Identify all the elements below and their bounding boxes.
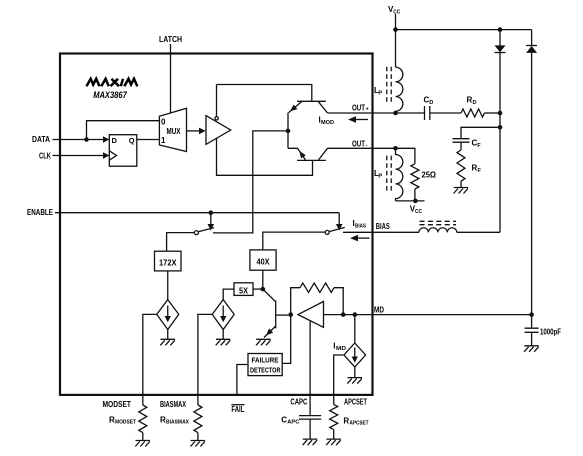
node OUT- Lp junction: [393, 146, 398, 151]
wire buffer bottom rail to Q2 base: [217, 138, 313, 176]
svg-text:DATA: DATA: [32, 135, 50, 144]
svg-text:OUT: OUT: [352, 104, 365, 113]
wire LATCH to MUX: [170, 44, 172, 113]
wire MODSET pin: [143, 314, 157, 405]
svg-text:LATCH: LATCH: [159, 35, 182, 44]
svg-text:1000pF: 1000pF: [540, 328, 561, 337]
ground CAPC: [303, 439, 318, 445]
wire buffer top rail to Q1 base: [217, 85, 312, 117]
svg-text:MODSET: MODSET: [103, 400, 132, 409]
wire MD node to IMD source: [354, 315, 356, 343]
IC outline U1 MAX3867: [60, 54, 373, 395]
svg-text:40X: 40X: [257, 258, 271, 267]
ground IMD: [347, 378, 362, 384]
value label RBIASMAX: [160, 416, 189, 426]
D flip-flop U2: [109, 135, 137, 167]
resistor RD: [461, 109, 484, 117]
wire RD to node: [485, 112, 501, 114]
svg-text:BIASMAX: BIASMAX: [166, 420, 189, 426]
wire CAPC pin: [309, 320, 311, 415]
transistor Q3 bias: [263, 289, 291, 337]
node emitter junction: [286, 129, 291, 134]
svg-text:1: 1: [161, 136, 166, 145]
svg-text:-: -: [366, 143, 368, 149]
node MD to IMD source: [353, 312, 358, 317]
svg-text:BIASMAX: BIASMAX: [160, 400, 186, 409]
svg-text:MD: MD: [336, 346, 346, 352]
pin label APCSET: [344, 398, 367, 407]
pin label LATCH: [159, 35, 182, 44]
capacitor CAPC: [299, 416, 321, 420]
arrowhead Q2 emitter: [299, 151, 306, 159]
svg-text:F: F: [477, 143, 481, 149]
svg-text:CC: CC: [415, 209, 422, 215]
wire RF to ground: [460, 181, 462, 187]
wire Q2 collector OUT-: [328, 147, 396, 149]
ground RF: [454, 188, 469, 194]
wire RMODSET to ground: [142, 433, 144, 441]
node VCC stub junction: [393, 27, 398, 32]
label LP upper: [374, 86, 382, 97]
power label VCC top: [388, 5, 400, 16]
arrow enable switch 2: [336, 213, 343, 231]
label RF: [472, 164, 482, 175]
wire CF to RF: [460, 142, 462, 150]
wire source to ground 2: [222, 330, 224, 340]
svg-text:172X: 172X: [159, 259, 177, 268]
node laser diode branch: [498, 27, 503, 32]
pin label OUT-: [352, 140, 368, 149]
wire amp input MD: [324, 314, 373, 316]
ferrite bead L1: [419, 221, 457, 232]
wire BIASMAX pin: [198, 314, 212, 405]
transistor Q1 upper: [289, 101, 328, 113]
wire laser cathode: [499, 53, 501, 233]
wire CLK input: [53, 155, 105, 157]
wire bead to laser cathode line: [457, 231, 500, 233]
pin label OUT+: [352, 104, 370, 113]
wire rail to photodiode: [531, 30, 533, 46]
svg-text:D: D: [473, 100, 477, 106]
svg-text:ENABLE: ENABLE: [27, 208, 54, 217]
pin label CAPC: [290, 398, 307, 407]
arrowhead CLK into flip-flop: [103, 152, 109, 159]
svg-text:MODSET: MODSET: [115, 420, 137, 426]
svg-text:MAX3867: MAX3867: [93, 90, 127, 100]
pin label ENABLE: [27, 208, 54, 217]
wire 25ohm branch: [396, 148, 415, 164]
node RD laser junction: [498, 111, 503, 116]
pin label BIAS: [376, 222, 390, 231]
svg-text:DETECTOR: DETECTOR: [250, 368, 281, 375]
wire IBIAS to BIAS pin: [343, 231, 419, 233]
resistor RMODSET: [139, 405, 147, 433]
pin label MD: [374, 306, 384, 315]
svg-text:APCSET: APCSET: [350, 421, 369, 427]
current source IMD: [344, 343, 366, 367]
wire feedback loop: [291, 288, 344, 315]
resistor 25ohm: [411, 164, 419, 189]
node MD 1000pF junction: [529, 312, 534, 317]
arrow enable switch 1: [208, 213, 215, 231]
ground RBIASMAX: [190, 441, 205, 447]
svg-text:BIAS: BIAS: [376, 222, 390, 231]
svg-text:MUX: MUX: [167, 127, 182, 136]
wire photodiode anode: [531, 53, 533, 315]
buffer U4: [206, 116, 231, 145]
power label VCC lower: [410, 205, 422, 216]
label 25ohm: [422, 171, 437, 180]
svg-text:C: C: [281, 416, 287, 425]
wire CF branch: [461, 127, 500, 138]
wire 172X to switch S1: [167, 233, 195, 252]
wire MD external: [373, 314, 532, 316]
APC amplifier U5: [298, 302, 324, 328]
svg-text:APC: APC: [287, 420, 299, 426]
ground RAPCSET: [326, 439, 341, 445]
svg-text:FAILURE: FAILURE: [252, 358, 279, 365]
arrowhead MUX output: [199, 128, 206, 135]
node OUT+ Lp junction: [393, 111, 398, 116]
svg-text:CLK: CLK: [39, 152, 51, 161]
photodiode D2: [526, 46, 537, 53]
arrowhead DATA into flip-flop: [103, 136, 109, 143]
svg-text:FAIL: FAIL: [231, 405, 244, 414]
value label 1000pF: [540, 328, 561, 337]
wire DATA input: [53, 139, 105, 141]
inductor LP upper: [387, 67, 403, 111]
wire 5X to node: [253, 288, 263, 290]
current source IBIASMAX: [212, 300, 234, 330]
label RD: [467, 96, 477, 107]
node VCC lower junction: [413, 199, 418, 204]
svg-text:OUT: OUT: [352, 140, 365, 149]
label LP lower: [374, 169, 382, 180]
svg-text:BIAS: BIAS: [355, 224, 366, 230]
label CF: [472, 139, 482, 150]
wire MUX output: [187, 130, 200, 132]
svg-text:25Ω: 25Ω: [422, 171, 437, 180]
wire 172X to current source: [167, 271, 169, 300]
wire Q1 collector OUT+: [328, 112, 425, 114]
wire RBIASMAX to ground: [197, 433, 199, 441]
node ENABLE junction: [209, 210, 214, 215]
wire Q to MUX input 1: [137, 139, 160, 141]
wire amp output to failure detector: [282, 315, 291, 364]
node junction on DATA line: [84, 137, 89, 142]
wire tail current: [213, 131, 288, 233]
part label MAX3867: [93, 90, 127, 100]
resistor RF: [457, 150, 465, 181]
svg-text:5X: 5X: [239, 287, 249, 296]
svg-text:APCSET: APCSET: [344, 398, 367, 407]
ground below IBIASMAX source: [216, 339, 231, 345]
node 5X-40X junction: [261, 287, 266, 292]
arrow IMOD: [348, 116, 368, 123]
amplifier block 5X: [234, 283, 253, 296]
label IMOD: [319, 116, 335, 127]
svg-text:Q: Q: [129, 136, 135, 145]
pin label FAIL with overbar: [231, 405, 244, 414]
wire ENABLE: [55, 212, 339, 214]
wire source top to 5X: [223, 289, 234, 300]
wire VCC stub: [395, 14, 397, 30]
wire 40X bottom: [262, 270, 264, 289]
node feedback right: [341, 312, 346, 317]
capacitor 1000pF: [525, 315, 539, 346]
laser diode D1: [495, 45, 506, 52]
wire 25ohm bottom: [396, 189, 425, 201]
wire rail to laser diode: [499, 30, 501, 46]
value label CAPC: [281, 416, 299, 426]
wire MUX input 0: [87, 121, 160, 140]
ground below IMODSET source: [160, 339, 175, 345]
svg-text:MD: MD: [374, 306, 384, 315]
wire upper Lp from rail: [395, 30, 397, 68]
node amp output: [288, 312, 293, 317]
mux U3: [159, 108, 186, 151]
value label RMODSET: [109, 416, 137, 426]
inverter bubble on buffer: [215, 117, 218, 120]
label IBIAS: [353, 219, 367, 230]
switch S1 contact: [194, 228, 214, 235]
ground RMODSET: [135, 441, 150, 447]
wire emitters common: [287, 113, 289, 149]
wire VCC rail: [396, 29, 532, 31]
label CD: [424, 96, 434, 107]
resistor RBIASMAX: [194, 405, 202, 433]
svg-text:P: P: [378, 91, 382, 97]
wire current source to ground: [167, 330, 169, 340]
ground below Q3: [256, 339, 271, 345]
svg-text:CAPC: CAPC: [290, 398, 307, 407]
wire IMD source to ground: [354, 367, 356, 378]
inductor LP lower: [387, 148, 403, 201]
svg-text:R: R: [343, 417, 349, 426]
arrowhead Q1 emitter: [290, 105, 297, 112]
transistor Q2 lower: [288, 148, 328, 160]
value label RAPCSET: [343, 417, 369, 427]
pin label CLK: [39, 152, 51, 161]
svg-text:0: 0: [161, 118, 166, 127]
capacitor CF: [453, 139, 470, 143]
svg-text:F: F: [478, 168, 482, 174]
wire APCSET pin: [334, 355, 344, 404]
pin label DATA: [32, 135, 50, 144]
wire RAPCSET to ground: [333, 430, 335, 439]
wire CD to RD: [430, 112, 461, 114]
current source IMODSET: [157, 300, 179, 330]
capacitor CD: [425, 106, 430, 120]
svg-text:D: D: [112, 136, 118, 145]
switch S2 contact: [325, 227, 345, 234]
resistor feedback: [300, 283, 334, 292]
ground 1000pF: [524, 346, 539, 352]
wire CAPC cap to ground: [309, 419, 311, 439]
svg-text:MOD: MOD: [321, 120, 334, 126]
MAXIM logo: [87, 79, 138, 86]
arrowhead Q3 emitter: [266, 328, 273, 335]
wire 40X top to switch S2: [263, 232, 325, 250]
svg-text:P: P: [378, 174, 382, 180]
failure detector block: [248, 354, 282, 376]
label IMD: [333, 342, 346, 353]
pin label MODSET: [103, 400, 132, 409]
resistor RAPCSET: [330, 404, 338, 429]
wire FAIL pin: [237, 365, 248, 395]
arrow IBIAS: [350, 235, 370, 242]
svg-text:CC: CC: [393, 10, 400, 16]
amplifier block 172X: [155, 251, 182, 271]
amplifier block 40X: [250, 250, 276, 270]
node CF branch junction: [498, 125, 503, 130]
svg-text:D: D: [429, 100, 433, 106]
pin label BIASMAX: [160, 400, 186, 409]
